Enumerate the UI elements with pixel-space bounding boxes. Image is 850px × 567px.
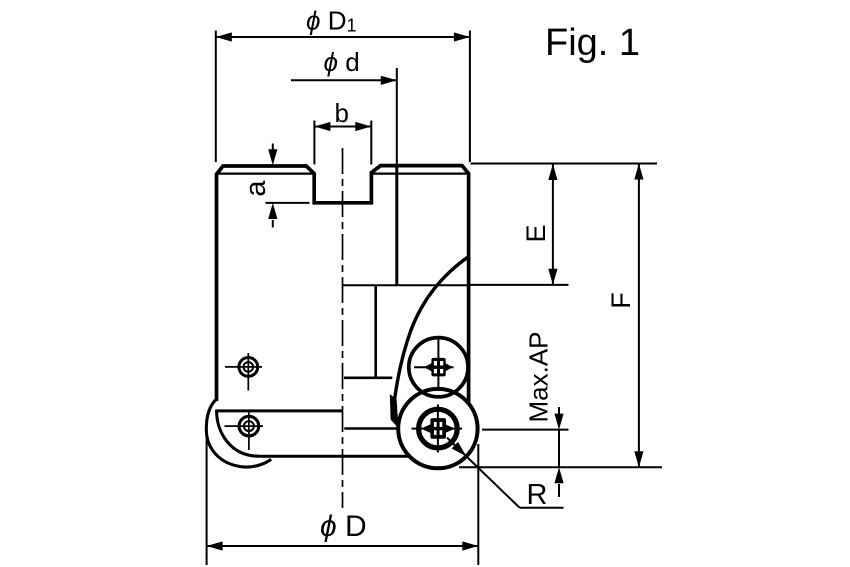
svg-text:Max.AP: Max.AP — [524, 331, 554, 422]
dimension Max.AP line — [558, 430, 560, 468]
dimension a extension line — [266, 202, 310, 204]
lower round insert circle — [398, 389, 477, 468]
bottom band top line — [215, 409, 342, 412]
dimension Max.AP upper arrow — [558, 407, 560, 414]
chip pocket curve — [393, 257, 469, 419]
svg-text:a: a — [240, 180, 272, 197]
center line — [342, 148, 344, 508]
bottom extension line — [459, 466, 662, 468]
svg-text:Fig. 1: Fig. 1 — [545, 22, 640, 64]
top chamfer inner line right — [373, 173, 467, 175]
svg-text:E: E — [521, 224, 551, 242]
svg-text:ϕ d: ϕ d — [324, 47, 360, 77]
dimension phi d line — [291, 79, 397, 81]
bottom band inner corner arc — [217, 411, 259, 456]
dimension phi D1 line — [216, 36, 470, 38]
dimension phi d extension line — [396, 68, 398, 165]
dimension phi D extension lines — [206, 436, 208, 565]
dimension Max.AP lower arrow — [558, 484, 560, 497]
dimension phi D1 extension lines — [215, 31, 217, 163]
lower insert screw head — [421, 424, 455, 433]
top chamfer inner line left — [218, 173, 313, 175]
dimension b extension lines — [313, 121, 315, 165]
upper round insert circle — [409, 338, 468, 397]
pocket wall wedge — [390, 394, 399, 428]
left clamp screw lower crosshair — [225, 425, 264, 427]
top right extension line — [471, 163, 658, 165]
dimension E line — [552, 164, 554, 285]
E bottom extension line — [469, 284, 569, 286]
lower insert screw crosshair — [412, 428, 463, 430]
left clamp screw upper — [239, 358, 258, 377]
svg-text:ϕ D: ϕ D — [320, 510, 367, 543]
R leader line — [447, 438, 520, 508]
lower insert retaining ring — [419, 409, 458, 448]
Max.AP upper extension line — [482, 429, 569, 431]
svg-text:b: b — [335, 98, 349, 128]
left clamp screw upper crosshair — [225, 366, 262, 368]
upper insert screw head — [424, 363, 453, 372]
dimension b line — [314, 126, 371, 128]
insert circles white fills — [398, 389, 477, 468]
upper insert screw crosshair — [414, 366, 454, 368]
bottom band bottom line — [258, 455, 410, 458]
dimension a upper arrow — [272, 144, 274, 151]
left clamp screw lower — [239, 416, 259, 436]
svg-text:F: F — [606, 292, 636, 309]
bore wall — [374, 285, 377, 378]
dimension a lower arrow — [272, 220, 274, 228]
bore bottom line — [344, 376, 392, 379]
dimension phi D line — [207, 545, 479, 547]
insert seat line — [344, 427, 400, 430]
bore step line — [343, 284, 469, 286]
left insert outer round edge — [206, 399, 271, 467]
dimension F line — [638, 164, 640, 468]
cutter body outline — [217, 166, 469, 410]
hub bore edge (phi d) — [395, 166, 398, 285]
svg-text:R: R — [527, 479, 548, 511]
